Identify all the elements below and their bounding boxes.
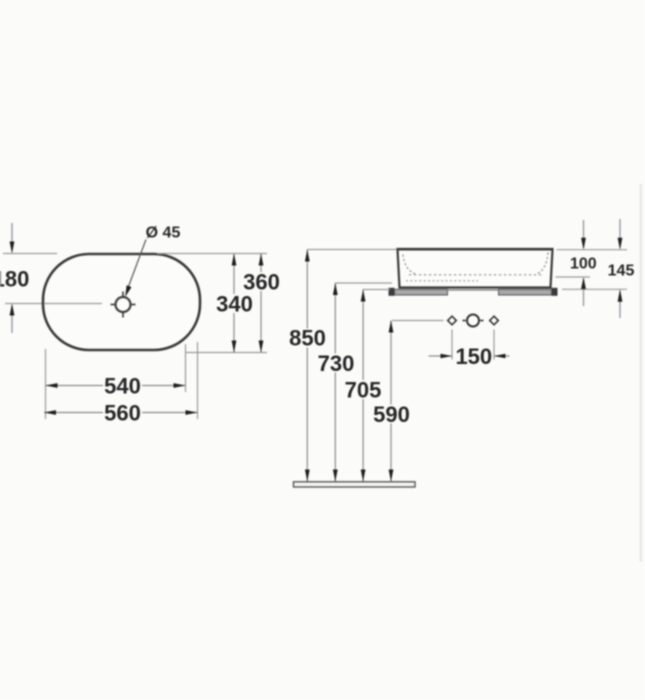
svg-text:560: 560 [104,400,141,425]
svg-text:145: 145 [608,262,635,279]
svg-text:Ø 45: Ø 45 [146,224,181,241]
svg-text:100: 100 [570,255,597,272]
svg-text:540: 540 [104,374,141,399]
svg-text:340: 340 [216,291,253,316]
svg-text:360: 360 [243,269,280,294]
svg-text:150: 150 [455,344,492,369]
svg-text:850: 850 [289,326,326,351]
svg-text:180: 180 [0,266,29,291]
svg-text:590: 590 [373,402,410,427]
svg-text:730: 730 [318,351,355,376]
svg-text:705: 705 [345,377,382,402]
